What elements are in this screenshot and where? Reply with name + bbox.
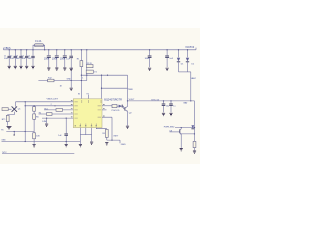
capacitor C4	[21, 49, 28, 66]
resistor R13	[6, 115, 9, 121]
wire chip left pin5	[42, 117, 73, 119]
capacitor C5	[28, 49, 35, 66]
ground under Q3	[180, 149, 183, 151]
transistor Q3	[170, 127, 195, 148]
junction iset bottom	[111, 139, 112, 140]
resistor R1 column from rail	[80, 49, 83, 99]
svg-text:1u: 1u	[173, 105, 175, 107]
svg-text:10uF: 10uF	[60, 59, 66, 61]
svg-text:2: 2	[51, 104, 52, 106]
svg-text:NTC: NTC	[2, 152, 7, 154]
node VBUS left tick	[3, 48, 5, 50]
IC U1 bottom pin numbers	[75, 125, 97, 127]
wire chip bottom pin A	[79, 128, 81, 144]
ground under C10	[45, 124, 48, 126]
capacitor C8	[60, 49, 67, 67]
resistor R7 below Wa	[33, 132, 41, 144]
wire chip pin VTSB stub	[88, 95, 90, 99]
svg-text:SYS_5V: SYS_5V	[151, 99, 159, 101]
connector P1	[2, 108, 12, 111]
wire Q1 collector to R13	[8, 112, 15, 116]
svg-text:VBUS: VBUS	[4, 48, 11, 50]
wire vertical A	[190, 72, 192, 101]
diode LED D3	[117, 105, 125, 109]
resistor R4 inline	[47, 113, 53, 116]
IC U1 inner pin names bottom	[80, 124, 96, 127]
wire bottom Wc	[2, 153, 74, 155]
ground under pin C	[90, 142, 93, 144]
wire chip right PGOOD stub	[102, 109, 107, 111]
IC U1 body	[73, 99, 102, 128]
ground under C12	[162, 113, 165, 115]
wire Wa net	[6, 131, 34, 133]
wire chip right STAT stub	[102, 105, 112, 107]
wire VCC rail	[4, 49, 197, 51]
wire chip bottom pin D	[96, 128, 107, 129]
svg-text:R8: R8	[102, 133, 104, 135]
svg-text:ILIM: ILIM	[42, 121, 46, 123]
ground under R7	[33, 145, 36, 147]
junction W6 B	[194, 127, 195, 128]
svg-text:BQ24075RGTR: BQ24075RGTR	[104, 99, 122, 102]
ground mid C9	[69, 68, 73, 70]
ground under R8	[105, 143, 108, 145]
svg-text:10uF: 10uF	[52, 59, 58, 61]
svg-text:1: 1	[82, 78, 83, 80]
junction x25.2 pin2	[25, 105, 26, 106]
capacitor C11 below pin5 wire	[58, 117, 68, 143]
ground under C11	[65, 144, 68, 146]
ground under C8	[63, 68, 66, 70]
svg-text:TMR: TMR	[128, 89, 133, 91]
wire chip left pin3	[44, 109, 73, 111]
wire V2 vertical	[127, 75, 129, 106]
ground under B	[193, 151, 196, 153]
wire chip bottom pin C	[91, 128, 93, 142]
IC U1 inner pin names left	[74, 102, 77, 118]
svg-text:10uF: 10uF	[44, 59, 50, 61]
transistor Q2	[125, 107, 128, 112]
capacitor C3	[16, 49, 23, 66]
svg-text:10uF: 10uF	[145, 58, 150, 60]
svg-text:GND: GND	[1, 139, 6, 141]
ground under C15	[166, 68, 169, 70]
ground under Q2	[126, 126, 129, 128]
stub below Wa	[13, 132, 15, 135]
wire GND long Wb	[2, 141, 81, 143]
IC U1 inner pin names top	[82, 100, 101, 103]
capacitor C14 right of rail	[145, 49, 152, 67]
svg-text:VCC5V0: VCC5V0	[185, 47, 195, 49]
ground under C9 tail	[70, 88, 73, 90]
mark below stub	[13, 134, 15, 136]
capacitor C1	[4, 49, 11, 66]
svg-text:10u: 10u	[166, 105, 169, 107]
ground under C13	[169, 113, 172, 115]
wire chip left pin4	[39, 113, 74, 115]
svg-text:GND: GND	[121, 144, 126, 146]
junction x25.2 Wa	[25, 131, 26, 132]
ground under C2	[14, 66, 17, 68]
wire Q1 emitter up	[15, 102, 17, 107]
resistor R11 on B	[193, 141, 196, 147]
ground under C5	[31, 66, 34, 68]
resistor R8 below chip	[102, 129, 108, 140]
capacitor C12 on W4	[162, 100, 169, 112]
wire B to ground	[194, 148, 196, 151]
svg-text:GND: GND	[67, 78, 72, 80]
svg-text:1%: 1%	[94, 72, 97, 74]
IC U1 inner pin names right	[98, 106, 101, 117]
wire chip left pin1	[16, 101, 74, 103]
junction W1 x101.5	[101, 75, 102, 76]
svg-text:R2 2K: R2 2K	[87, 63, 93, 65]
ground under C1	[8, 66, 11, 68]
resistor R3 inline	[56, 109, 63, 112]
ground under pin A	[79, 144, 82, 146]
wire W4 horizontal VOUT	[128, 100, 195, 102]
junction Wa x14.2	[14, 131, 15, 132]
junction Wb C11	[66, 141, 67, 142]
svg-text:R4: R4	[39, 112, 41, 114]
junction V2 W4	[127, 100, 128, 101]
capacitor C6	[44, 49, 51, 67]
resistor R5 box lower	[86, 70, 93, 73]
resistor R12 inline on WX	[48, 79, 54, 82]
svg-text:VOUT: VOUT	[129, 99, 136, 101]
junction W3	[101, 88, 102, 89]
resistor R2 box above	[86, 65, 93, 68]
fuse F1 loop above rail	[33, 44, 45, 51]
svg-text:1uF: 1uF	[66, 59, 70, 61]
ground under C6	[47, 68, 50, 70]
ground under C7	[55, 68, 58, 70]
wire bottom right L	[107, 140, 120, 143]
wire vertical VBUS to WX	[86, 50, 88, 81]
ground under C4	[25, 66, 28, 68]
wire W5 diode join	[179, 71, 191, 73]
IC U1 pin number marks	[71, 101, 105, 117]
wire W3 horizontal	[102, 87, 128, 89]
background sheet	[0, 0, 200, 200]
capacitor C7	[52, 49, 59, 67]
wire WX horizontal	[38, 80, 86, 82]
diode D1	[177, 49, 184, 72]
capacitor C10 stub from pin5 wire	[46, 117, 47, 123]
wire vertical x25.2	[24, 102, 26, 142]
junction x25.2 pin1	[25, 101, 26, 102]
junction W1 x107.5	[107, 75, 108, 76]
svg-text:ISET: ISET	[114, 135, 119, 137]
junction WX x81.7	[81, 80, 82, 81]
transistor Q1 cross	[12, 106, 17, 111]
wire W6 horizontal	[175, 127, 195, 129]
wire R13 to ground	[7, 122, 9, 126]
junction rail x86.8	[86, 49, 87, 50]
wire chip left pin2	[25, 105, 73, 107]
wire chip bottom pin B	[85, 128, 87, 135]
capacitor C9 column	[66, 49, 73, 88]
wire V2 lower	[127, 111, 129, 125]
resistor R10 inline	[112, 105, 117, 108]
wire vertical B	[194, 101, 196, 141]
capacitor C15 right of rail	[165, 49, 174, 67]
net label VBUS right end	[195, 48, 197, 50]
wire chip top right vertical	[101, 75, 103, 99]
capacitor C13 on W4	[169, 100, 175, 112]
svg-text:VBAT: VBAT	[191, 77, 197, 80]
svg-text:PWR_EN2: PWR_EN2	[164, 126, 175, 128]
junction W1 x86.8	[86, 75, 87, 76]
junction pin2 wire	[54, 105, 55, 106]
svg-text:F1 2A: F1 2A	[35, 40, 42, 43]
junction A W4	[190, 100, 191, 101]
junction Wb x25.2	[25, 141, 26, 142]
ground under C14	[148, 68, 151, 70]
svg-text:PGOOD: PGOOD	[112, 110, 120, 112]
divider column x34.1	[33, 105, 40, 131]
junction B emitter wire	[194, 133, 195, 134]
wire chip right pin ISET	[102, 117, 112, 140]
ground under C3	[19, 66, 22, 68]
ground under R13	[7, 126, 12, 128]
schematic sheet band	[0, 28, 200, 164]
diode D4 beside B	[191, 125, 194, 129]
svg-text:VBUS_DET: VBUS_DET	[47, 99, 59, 101]
wire bottom H join	[80, 134, 91, 136]
diode D2	[186, 49, 195, 72]
capacitor C2	[10, 49, 17, 66]
wire W1 horizontal	[81, 74, 127, 76]
